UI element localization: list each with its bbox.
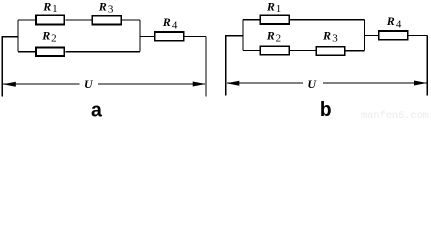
- svg-text:R1: R1: [42, 0, 57, 15]
- svg-text:R1: R1: [266, 0, 281, 15]
- svg-text:U: U: [84, 77, 94, 91]
- svg-text:manfen5.com: manfen5.com: [361, 110, 429, 119]
- svg-text:b: b: [320, 100, 332, 119]
- svg-text:a: a: [90, 100, 102, 119]
- svg-text:U: U: [307, 77, 317, 91]
